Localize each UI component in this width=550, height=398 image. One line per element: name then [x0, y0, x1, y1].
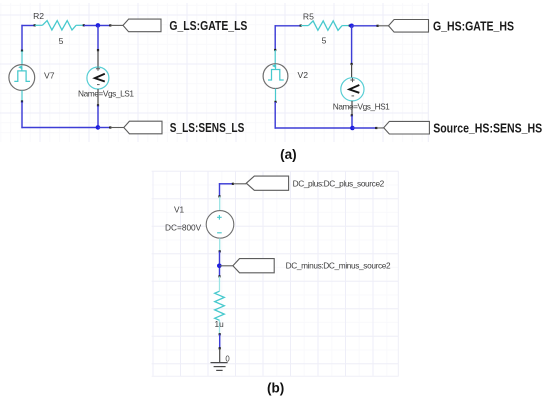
wire: DC_minus port lead gray [219, 265, 233, 267]
resistor R5 [301, 21, 350, 30]
wire: V7 bottom lead cyan [21, 90, 23, 101]
port Source_HS [384, 121, 430, 134]
port S_LS [124, 121, 162, 134]
wire: resistor to ground [219, 334, 221, 348]
pin: V7 bottom pin [21, 100, 23, 102]
resistor 1u (vertical) [215, 276, 225, 334]
pin: Source_HS port pin [375, 127, 377, 129]
svg-text:DC_minus:DC_minus_source2: DC_minus:DC_minus_source2 [286, 261, 391, 271]
pin: voltmeter LS top pin [97, 49, 99, 51]
node junction top-left [96, 23, 101, 28]
voltage source V7 [9, 65, 35, 91]
svg-text:R5: R5 [303, 12, 314, 22]
wire: junction to Source port [352, 127, 376, 129]
node junction bottom-right [350, 126, 355, 131]
svg-text:DC=800V: DC=800V [165, 222, 202, 232]
svg-text:1u: 1u [215, 319, 225, 329]
wire: right circuit left vertical upper [274, 25, 276, 50]
pin: R (1u) top pin [218, 275, 220, 277]
svg-text:0: 0 [225, 354, 230, 363]
wire: V1 top corner horizontal [219, 183, 233, 185]
node junction bottom-left [96, 125, 101, 130]
wire: right circuit left vertical lower [274, 102, 276, 129]
pin: V7 top pin [21, 50, 23, 52]
pin: R (1u) bottom pin [219, 333, 221, 335]
pin: R5 left pin [300, 25, 302, 27]
wire: left circuit left vertical upper [21, 25, 23, 51]
svg-text:G_HS:GATE_HS: G_HS:GATE_HS [433, 20, 514, 34]
wire: right mid branch lower [351, 115, 353, 128]
svg-text:DC_plus:DC_plus_source2: DC_plus:DC_plus_source2 [293, 178, 385, 188]
pin: V2 top pin [274, 49, 276, 51]
pin: R2 right pin [83, 24, 85, 26]
svg-text:V7: V7 [44, 70, 55, 80]
wire: left circuit top rail left segment [21, 25, 34, 27]
wire: DC_plus port lead gray [233, 183, 246, 185]
voltage source V2 [263, 64, 288, 89]
wire: V1 top lead cyan [219, 196, 221, 210]
wire: right mid branch upper [351, 26, 353, 64]
pin: voltmeter HS bottom pin [351, 114, 353, 116]
wire: mid branch lower [97, 105, 99, 127]
svg-text:5: 5 [322, 36, 327, 46]
node junction top-right [349, 24, 354, 29]
wire: V1 vertical upper [219, 183, 221, 196]
svg-text:(a): (a) [280, 147, 297, 162]
wire: voltmeter HS top lead [351, 64, 353, 78]
wire: bottom rail left [21, 127, 98, 129]
wire: S port lead gray [110, 127, 124, 129]
wire: port lead gray [110, 24, 123, 26]
wire: V2 top lead cyan [274, 50, 276, 64]
wire: V2 bottom lead cyan [275, 89, 277, 102]
port G_LS [123, 19, 161, 32]
pin: R5 right pin [349, 25, 351, 27]
svg-text:G_LS:GATE_LS: G_LS:GATE_LS [169, 19, 247, 33]
wire: R2 to junction [84, 25, 98, 27]
wire: voltmeter LS bottom lead [97, 89, 99, 105]
wire: voltmeter LS top lead [97, 50, 99, 67]
svg-text:R2: R2 [33, 11, 44, 21]
pin: voltmeter HS top pin [351, 63, 353, 65]
wire: junction to G port [98, 25, 110, 27]
wire: G_HS port lead gray [378, 25, 389, 27]
svg-text:Name=Vgs_HS1: Name=Vgs_HS1 [333, 102, 390, 112]
resistor R2 [35, 21, 84, 30]
pin: G_LS port pin [109, 24, 111, 26]
pin: G_HS port pin [377, 25, 379, 27]
svg-text:Name=Vgs_LS1: Name=Vgs_LS1 [78, 88, 134, 98]
pin: voltmeter LS bottom pin [97, 104, 99, 106]
ground [211, 348, 228, 370]
wire: right bottom rail [275, 127, 353, 129]
svg-text:5: 5 [59, 36, 64, 46]
pin: R2 left pin [34, 24, 36, 26]
voltage source V1 [206, 211, 234, 239]
wire: junction to S port [98, 127, 110, 129]
wire: V7 top lead cyan [21, 51, 23, 65]
voltmeter Vgs_LS1 [87, 67, 109, 89]
pin: ground pin [219, 347, 221, 349]
svg-text:Source_HS:SENS_HS: Source_HS:SENS_HS [433, 121, 542, 135]
svg-text:V1: V1 [174, 205, 185, 215]
wire: junction to G_HS port [352, 25, 378, 27]
svg-text:S_LS:SENS_LS: S_LS:SENS_LS [170, 121, 245, 135]
wire: Source port lead gray [376, 127, 383, 129]
wire: V1 to DC_minus junction [219, 251, 221, 276]
port DC_minus [233, 259, 274, 273]
svg-text:V2: V2 [298, 70, 309, 80]
wire: mid branch upper [97, 26, 99, 51]
pin: V1 top pin [218, 195, 220, 197]
svg-text:(b): (b) [267, 381, 284, 396]
node junction DC_minus [217, 264, 222, 269]
wire: voltmeter HS bottom lead [351, 101, 353, 116]
voltmeter Vgs_HS1 [341, 78, 364, 101]
port DC_plus [246, 176, 288, 190]
port G_HS [389, 20, 429, 33]
wire: left vertical lower [21, 102, 23, 129]
wire: right circuit top rail left segment [275, 25, 301, 27]
pin: S_LS port pin [109, 126, 111, 128]
pin: V1 bottom pin [219, 250, 221, 252]
pin: V2 bottom pin [274, 101, 276, 103]
wire: V1 bottom lead cyan [219, 238, 221, 251]
pin: DC_plus port pin [232, 183, 234, 185]
